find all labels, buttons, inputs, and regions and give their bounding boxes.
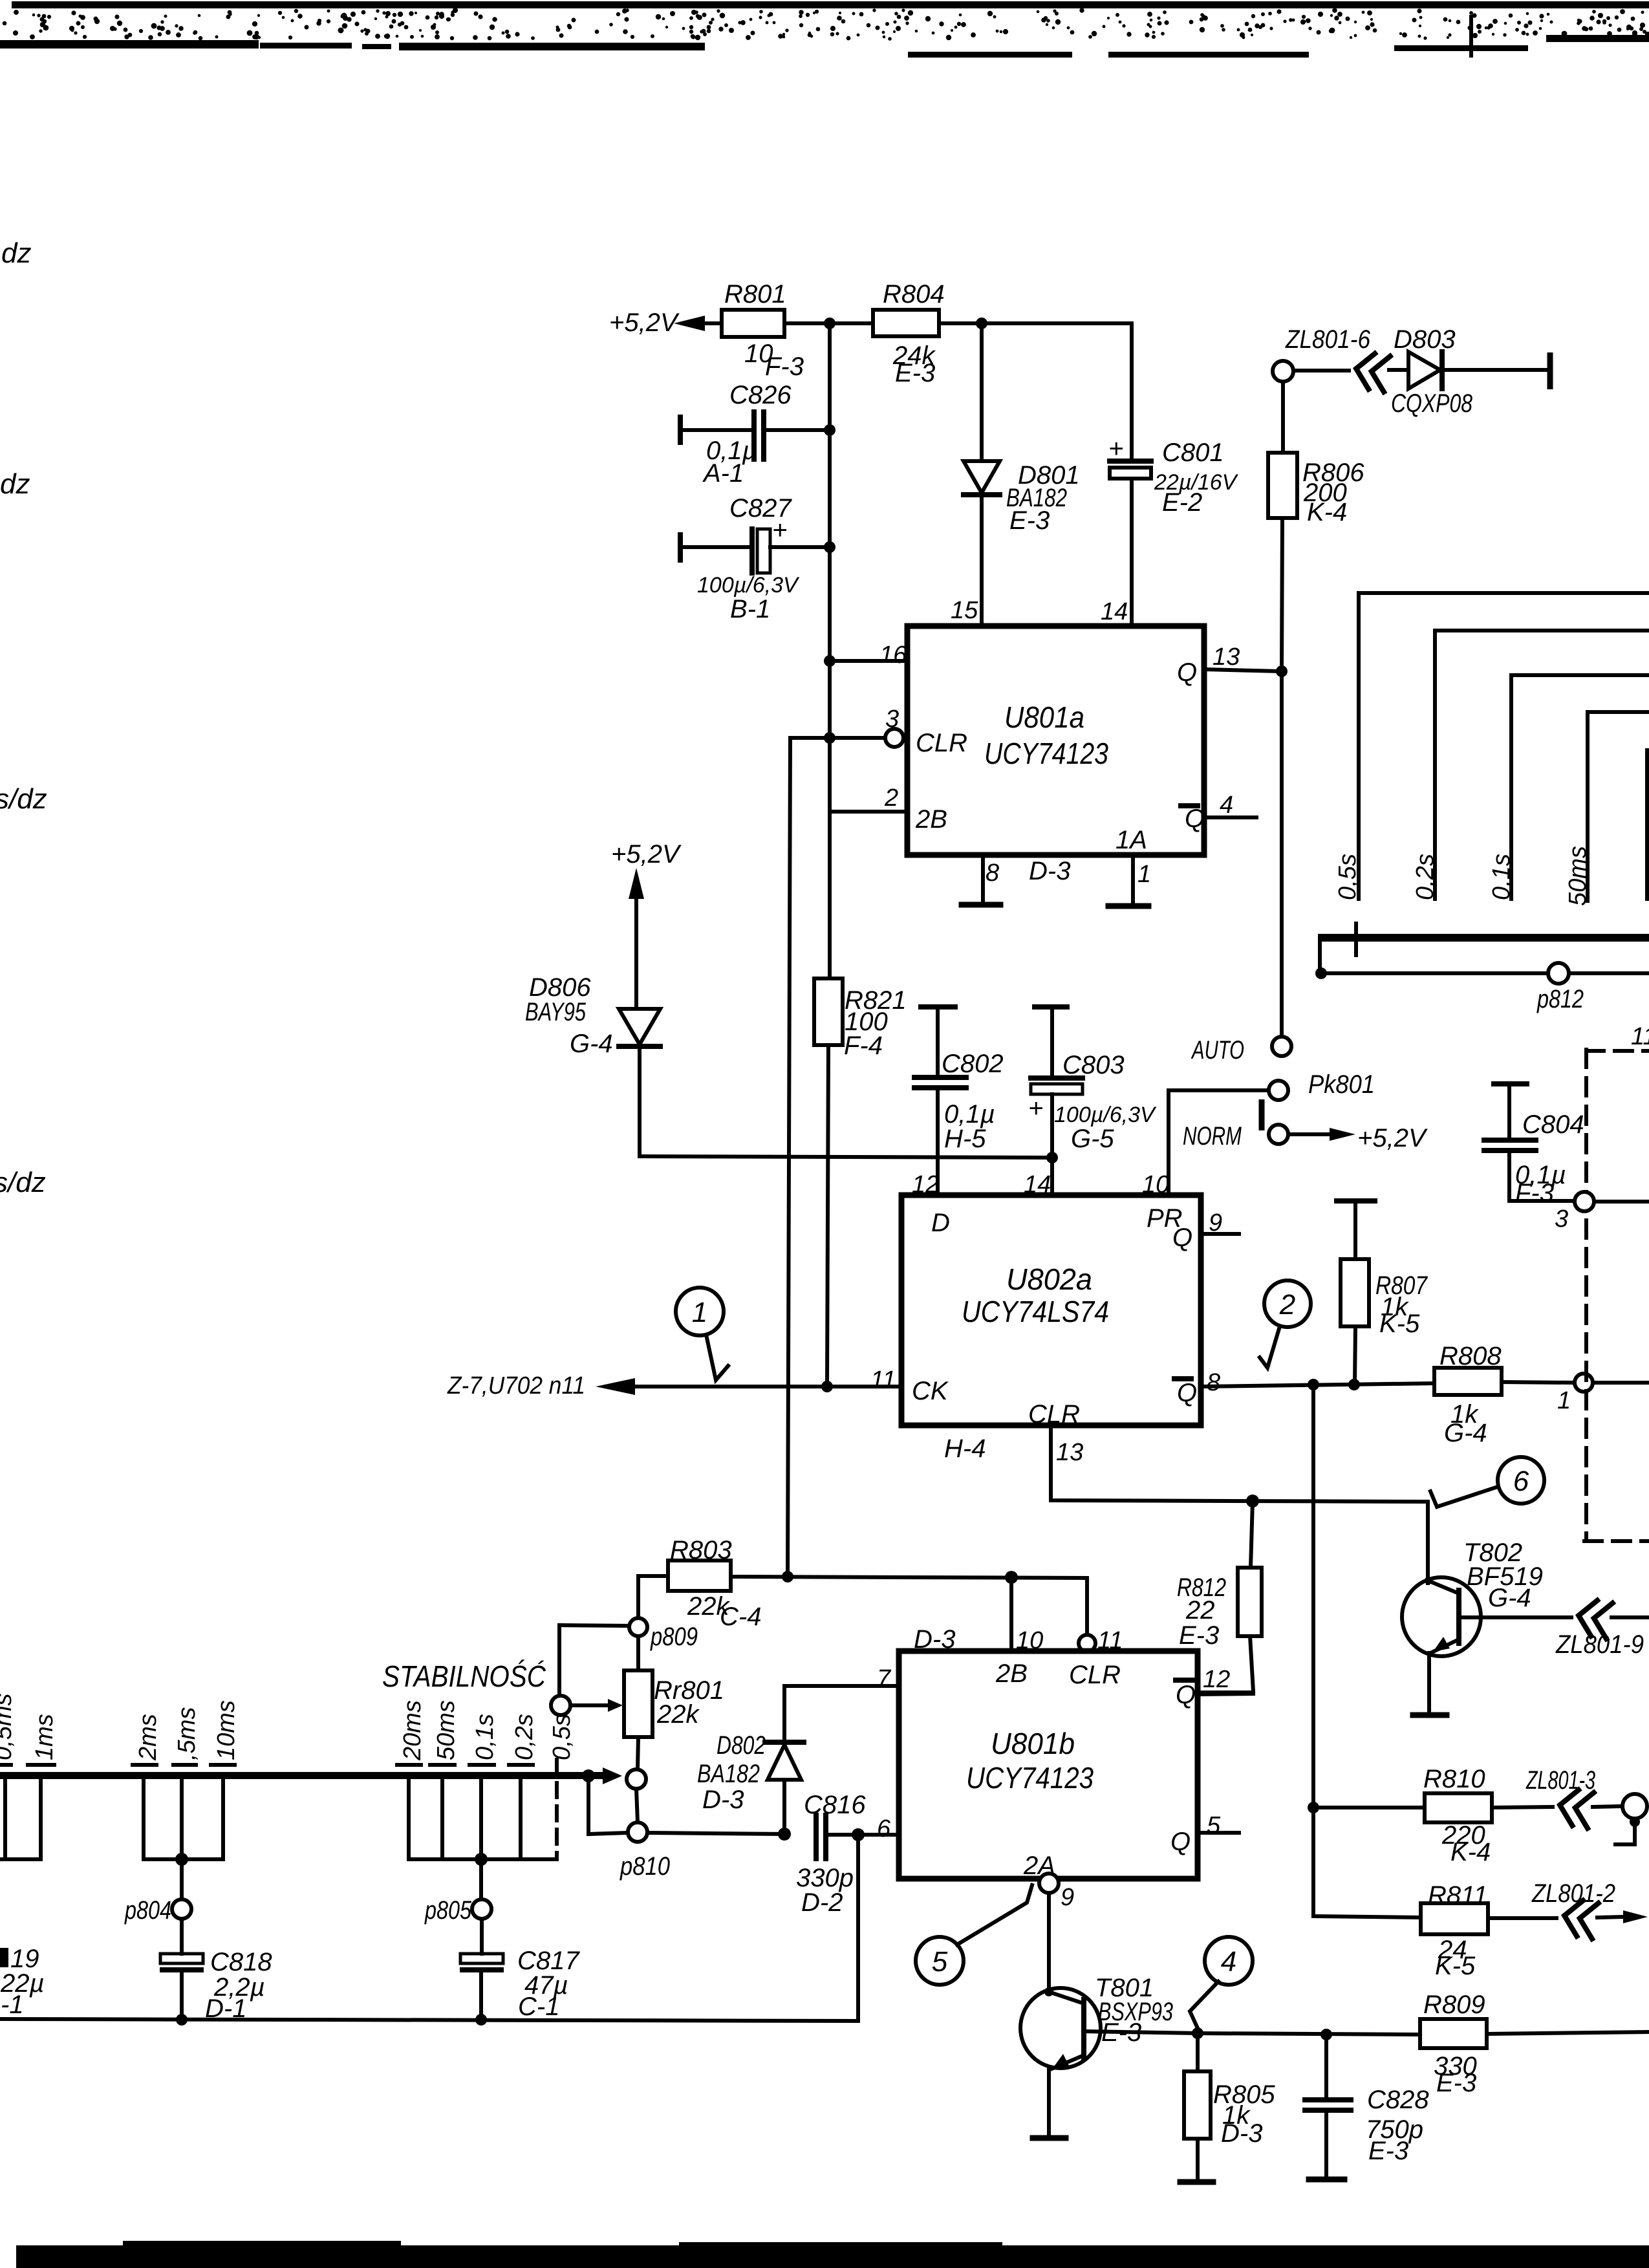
svg-text:ZL801-2: ZL801-2 bbox=[1531, 1879, 1615, 1908]
svg-text:ZL801-3: ZL801-3 bbox=[1525, 1766, 1595, 1795]
svg-text:D803: D803 bbox=[1394, 325, 1456, 354]
svg-text:p804: p804 bbox=[124, 1896, 171, 1925]
svg-text:Q: Q bbox=[1177, 1379, 1197, 1407]
svg-text:ZL801-9: ZL801-9 bbox=[1555, 1630, 1644, 1659]
svg-text:D-3: D-3 bbox=[702, 1786, 744, 1814]
svg-text:11: 11 bbox=[1631, 1023, 1649, 1050]
svg-text:15: 15 bbox=[951, 597, 978, 624]
svg-text:4: 4 bbox=[1221, 1946, 1236, 1978]
svg-text:Q: Q bbox=[1177, 658, 1197, 687]
svg-text:0,1s: 0,1s bbox=[1488, 854, 1515, 900]
svg-text:Q: Q bbox=[1176, 1681, 1196, 1709]
svg-text:U801a: U801a bbox=[1004, 700, 1084, 734]
svg-text:C803: C803 bbox=[1062, 1051, 1125, 1079]
svg-text:U802a: U802a bbox=[1006, 1262, 1092, 1296]
svg-text:1: 1 bbox=[692, 1297, 707, 1328]
svg-text:C804: C804 bbox=[1522, 1110, 1584, 1139]
svg-text:5: 5 bbox=[1207, 1812, 1221, 1839]
svg-text:dz: dz bbox=[1, 237, 31, 269]
svg-text:100µ/6,3V: 100µ/6,3V bbox=[1054, 1103, 1157, 1127]
svg-text:22k: 22k bbox=[656, 1700, 700, 1729]
svg-text:8: 8 bbox=[1207, 1369, 1220, 1396]
svg-text:3: 3 bbox=[1555, 1205, 1568, 1233]
svg-text:UCY74123: UCY74123 bbox=[984, 737, 1108, 770]
svg-text:1A: 1A bbox=[1115, 826, 1147, 854]
svg-text:16: 16 bbox=[879, 642, 907, 669]
svg-text:C828: C828 bbox=[1367, 2086, 1429, 2114]
svg-text:0,2s: 0,2s bbox=[1412, 854, 1439, 900]
svg-text:0,5s: 0,5s bbox=[548, 1714, 576, 1760]
svg-text:U801b: U801b bbox=[991, 1727, 1075, 1760]
svg-text:p805: p805 bbox=[424, 1896, 471, 1925]
svg-text:B-1: B-1 bbox=[730, 595, 770, 623]
svg-text:+5,2V: +5,2V bbox=[1357, 1124, 1428, 1152]
svg-text:K-4: K-4 bbox=[1450, 1838, 1491, 1866]
svg-text:50ms: 50ms bbox=[1564, 846, 1591, 906]
svg-text:CLR: CLR bbox=[916, 729, 967, 757]
svg-text:E-3: E-3 bbox=[1179, 1621, 1219, 1650]
svg-text:Q: Q bbox=[1170, 1828, 1191, 1856]
svg-text:ZL801-6: ZL801-6 bbox=[1285, 325, 1371, 354]
svg-text:0,5s: 0,5s bbox=[1334, 854, 1361, 900]
svg-text:CQXP08: CQXP08 bbox=[1391, 389, 1473, 418]
svg-text:K-5: K-5 bbox=[1379, 1310, 1420, 1338]
svg-text:p810: p810 bbox=[620, 1852, 670, 1881]
svg-text:1: 1 bbox=[1137, 861, 1151, 888]
svg-text:C-4: C-4 bbox=[720, 1603, 761, 1631]
svg-text:10ms: 10ms bbox=[213, 1700, 240, 1760]
svg-text:R804: R804 bbox=[883, 280, 945, 308]
svg-text:7: 7 bbox=[877, 1665, 892, 1692]
svg-text:6: 6 bbox=[1513, 1465, 1529, 1497]
svg-text:K-4: K-4 bbox=[1307, 498, 1347, 526]
svg-text:UCY74LS74: UCY74LS74 bbox=[962, 1295, 1109, 1328]
svg-text:C826: C826 bbox=[729, 381, 792, 409]
svg-text:R810: R810 bbox=[1423, 1765, 1485, 1793]
svg-text:9: 9 bbox=[1061, 1884, 1074, 1911]
svg-text:0,1s: 0,1s bbox=[471, 1714, 499, 1760]
svg-text:100µ/6,3V: 100µ/6,3V bbox=[697, 573, 800, 598]
svg-text:p809: p809 bbox=[650, 1623, 698, 1651]
svg-text:NORM: NORM bbox=[1183, 1122, 1242, 1150]
svg-text:Z-7,U702 n11: Z-7,U702 n11 bbox=[447, 1372, 585, 1399]
svg-text:C-1: C-1 bbox=[518, 1993, 559, 2021]
svg-text:BAY95: BAY95 bbox=[525, 998, 587, 1026]
svg-text:4: 4 bbox=[1220, 792, 1233, 819]
svg-text:G-4: G-4 bbox=[1488, 1584, 1531, 1612]
svg-text:2ms: 2ms bbox=[135, 1714, 162, 1761]
svg-text:p812: p812 bbox=[1536, 985, 1584, 1013]
svg-text:D-1: D-1 bbox=[205, 1994, 246, 2023]
svg-text:Pk801: Pk801 bbox=[1308, 1070, 1375, 1099]
svg-text:8: 8 bbox=[986, 859, 999, 887]
svg-text:R809: R809 bbox=[1423, 1991, 1485, 2019]
svg-text:R811: R811 bbox=[1428, 1881, 1488, 1910]
svg-text:1: 1 bbox=[1557, 1387, 1571, 1414]
svg-text:E-2: E-2 bbox=[1162, 488, 1202, 517]
svg-text:R803: R803 bbox=[670, 1536, 732, 1564]
svg-text:3: 3 bbox=[885, 706, 899, 733]
svg-text:+5,2V: +5,2V bbox=[611, 840, 682, 869]
svg-text:+: + bbox=[1028, 1094, 1043, 1123]
svg-text:11: 11 bbox=[870, 1366, 896, 1394]
svg-text:K-5: K-5 bbox=[1435, 1952, 1476, 1980]
svg-text:Q: Q bbox=[1172, 1224, 1192, 1252]
svg-text:C818: C818 bbox=[210, 1948, 272, 1976]
svg-text:s/dz: s/dz bbox=[0, 1167, 46, 1198]
svg-text:CK: CK bbox=[912, 1377, 949, 1405]
svg-text:2B: 2B bbox=[915, 805, 947, 834]
svg-text:D-3: D-3 bbox=[1029, 857, 1070, 885]
svg-text:E-3: E-3 bbox=[1368, 2137, 1408, 2165]
svg-text:+5,2V: +5,2V bbox=[609, 308, 680, 337]
svg-text:F-4: F-4 bbox=[844, 1031, 883, 1060]
svg-text:G-4: G-4 bbox=[570, 1030, 613, 1058]
svg-text:1ms: 1ms bbox=[31, 1714, 58, 1760]
svg-text:C802: C802 bbox=[942, 1050, 1004, 1078]
svg-text:C827: C827 bbox=[729, 494, 792, 523]
svg-text:G-5: G-5 bbox=[1071, 1125, 1114, 1153]
svg-text:2B: 2B bbox=[995, 1659, 1028, 1688]
svg-text:2: 2 bbox=[1279, 1289, 1295, 1321]
svg-text:13: 13 bbox=[1212, 643, 1240, 671]
svg-text:UCY74123: UCY74123 bbox=[966, 1761, 1094, 1795]
svg-text:R801: R801 bbox=[724, 280, 786, 308]
svg-text:A-1: A-1 bbox=[702, 459, 744, 488]
svg-text:Q: Q bbox=[1185, 805, 1205, 833]
svg-text:14: 14 bbox=[1101, 598, 1128, 625]
svg-text:G-4: G-4 bbox=[1444, 1419, 1487, 1447]
svg-text:dz: dz bbox=[0, 468, 30, 500]
svg-text:-1: -1 bbox=[1, 1991, 24, 2019]
svg-text:20ms: 20ms bbox=[399, 1700, 426, 1761]
svg-text:12: 12 bbox=[1203, 1666, 1230, 1693]
svg-text:E-3: E-3 bbox=[1436, 2069, 1476, 2097]
svg-text:s/dz: s/dz bbox=[0, 783, 47, 815]
svg-text:F-3: F-3 bbox=[765, 352, 804, 381]
svg-text:0,2s: 0,2s bbox=[511, 1714, 538, 1760]
svg-text:D802: D802 bbox=[717, 1731, 766, 1760]
svg-text:E-3: E-3 bbox=[1101, 2018, 1141, 2047]
svg-text:F-3: F-3 bbox=[1515, 1179, 1554, 1207]
svg-text:E-3: E-3 bbox=[895, 359, 935, 387]
svg-text:D-2: D-2 bbox=[801, 1888, 843, 1917]
svg-text:D: D bbox=[931, 1209, 950, 1237]
svg-text:CLR: CLR bbox=[1069, 1661, 1121, 1689]
svg-text:50ms: 50ms bbox=[433, 1700, 460, 1760]
svg-text:BA182: BA182 bbox=[697, 1760, 760, 1788]
svg-text:C816: C816 bbox=[804, 1791, 866, 1819]
svg-text:R808: R808 bbox=[1439, 1342, 1502, 1370]
svg-text:22: 22 bbox=[1185, 1596, 1215, 1625]
svg-text:D-3: D-3 bbox=[1221, 2119, 1262, 2148]
svg-text:9: 9 bbox=[1209, 1209, 1222, 1237]
svg-text:C801: C801 bbox=[1162, 438, 1224, 467]
svg-text:2: 2 bbox=[884, 784, 898, 812]
svg-text:13: 13 bbox=[1056, 1439, 1083, 1466]
svg-text:5: 5 bbox=[932, 1946, 948, 1978]
svg-text:E-3: E-3 bbox=[1009, 506, 1050, 535]
svg-text:STABILNOŚĆ: STABILNOŚĆ bbox=[382, 1659, 546, 1693]
svg-text:,5ms: ,5ms bbox=[173, 1707, 200, 1760]
svg-text:0,5ms: 0,5ms bbox=[0, 1694, 17, 1760]
svg-text:AUTO: AUTO bbox=[1191, 1036, 1244, 1064]
svg-text:H-5: H-5 bbox=[944, 1125, 986, 1153]
svg-text:6: 6 bbox=[877, 1815, 891, 1842]
svg-text:CLR: CLR bbox=[1028, 1400, 1080, 1429]
svg-text:H-4: H-4 bbox=[944, 1434, 986, 1463]
